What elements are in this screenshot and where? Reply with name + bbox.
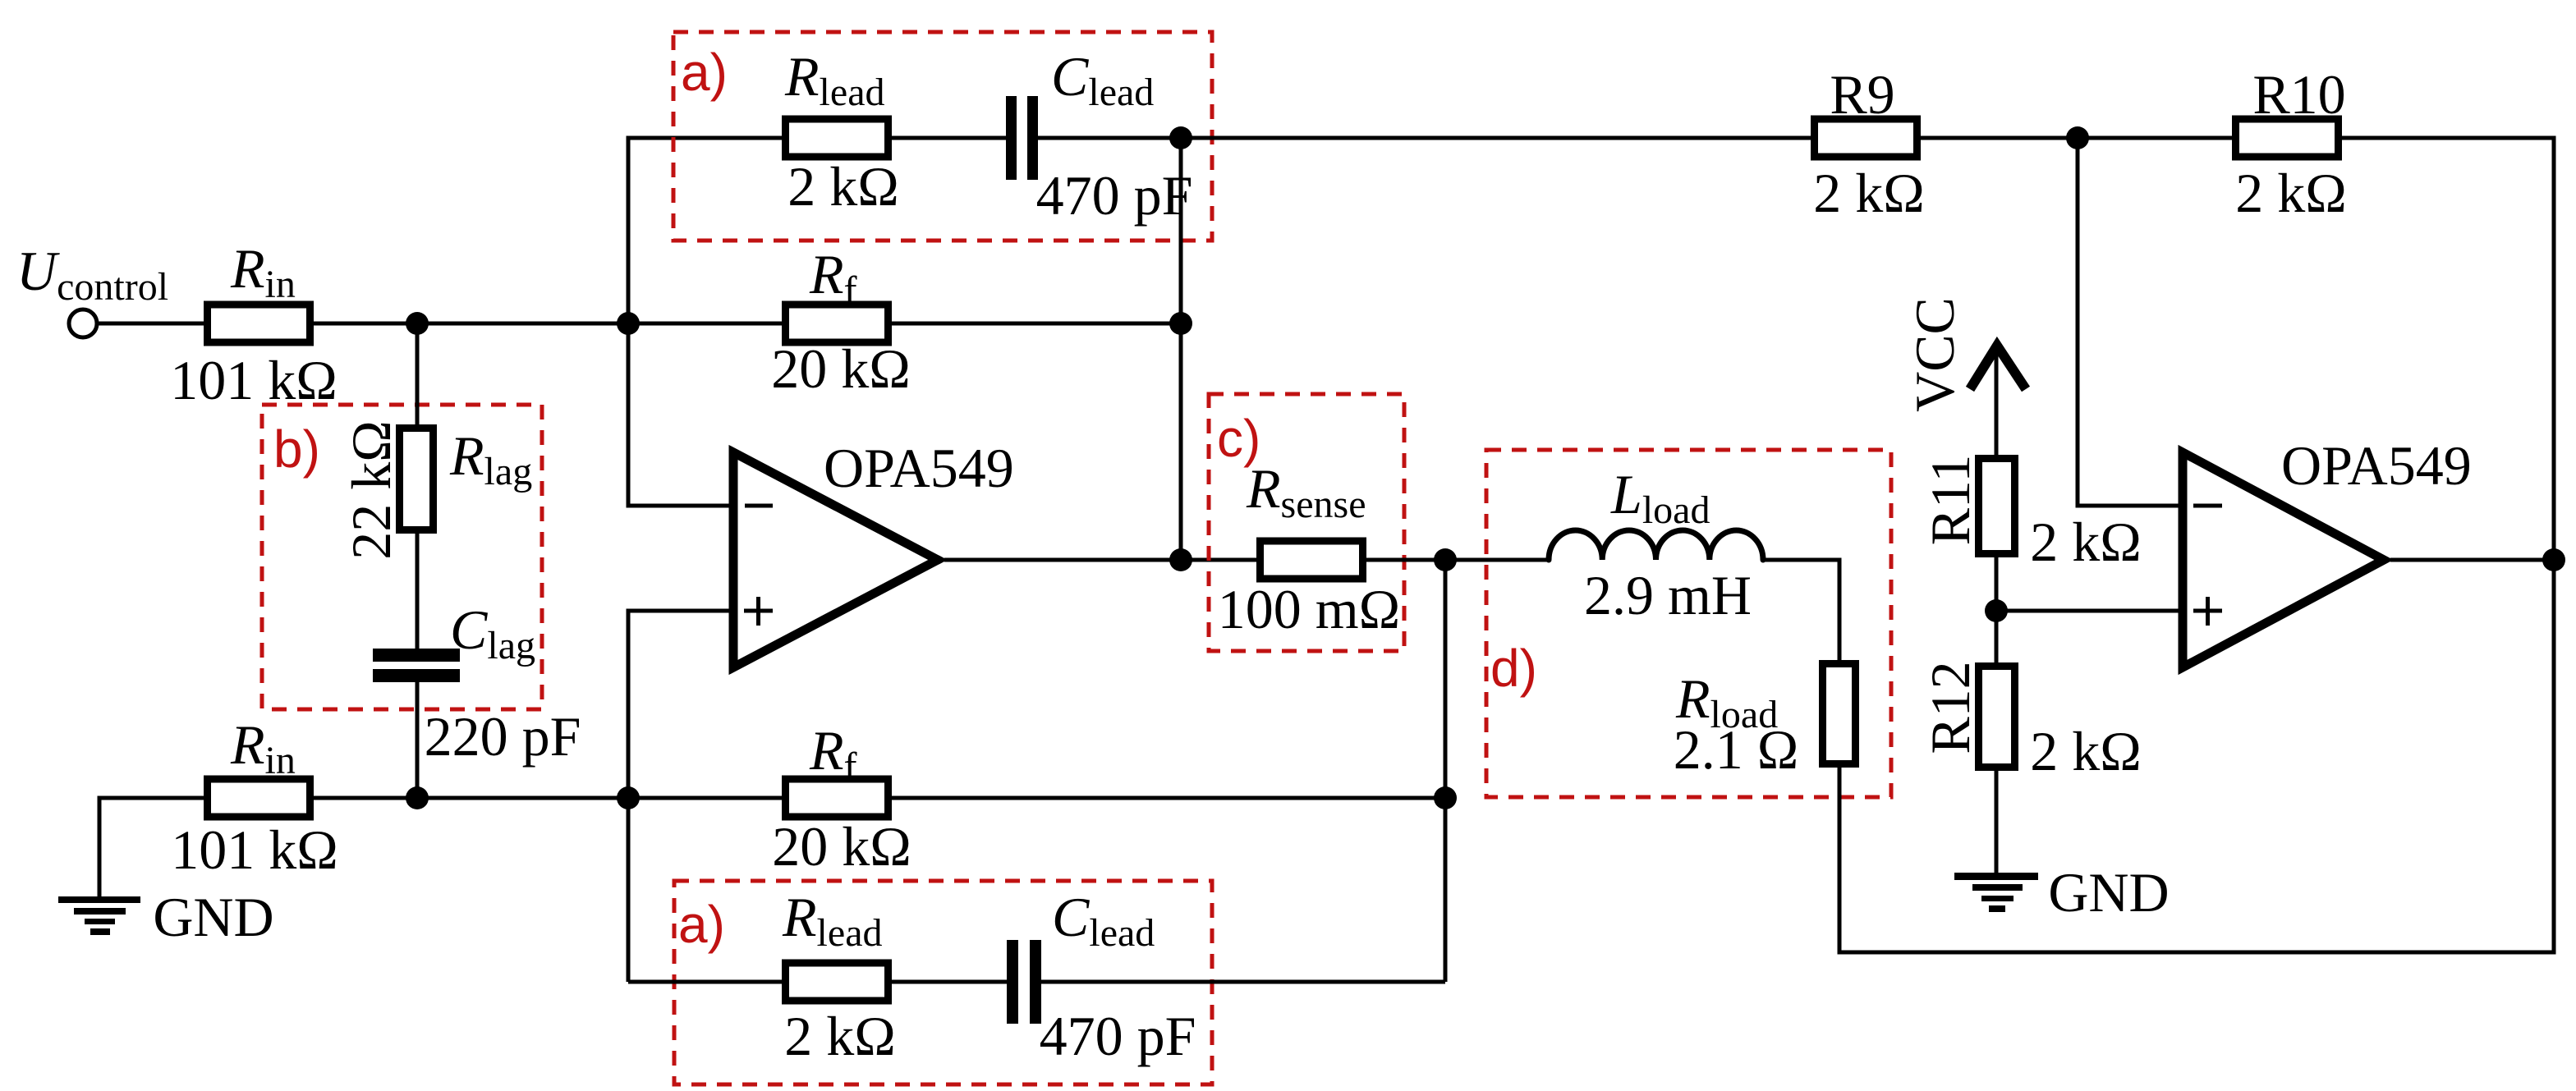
resistor R_lag (400, 429, 434, 530)
wire U1 output (944, 558, 1263, 562)
svg-text:GND: GND (153, 886, 273, 948)
wire R_lead to C_lead bottom (884, 980, 1007, 984)
wire C_lag to lower row (416, 682, 420, 798)
node F (output bus) (1169, 548, 1192, 571)
svg-text:R12: R12 (1919, 661, 1981, 754)
svg-text:R10: R10 (2252, 63, 2345, 126)
minus sign U2 (2193, 504, 2222, 508)
box b) dashed (262, 405, 542, 709)
svg-text:2.1 Ω: 2.1 Ω (1674, 718, 1799, 781)
wire minus input U1 (628, 323, 733, 506)
wire R_in to R_f bottom (310, 796, 786, 800)
wire R10 to right corner (2335, 138, 2554, 560)
resistor R9 (1815, 119, 1917, 157)
svg-text:101 kΩ: 101 kΩ (170, 349, 337, 411)
plus sign U2 (2193, 609, 2222, 613)
node H (lower row joint) (1434, 786, 1457, 809)
resistor R_f (top) (786, 305, 889, 342)
resistor R12 (1979, 667, 2015, 768)
box c) dashed (1209, 394, 1404, 651)
node J (plus branch joint) (617, 786, 640, 809)
wire R_f bottom right (884, 796, 1445, 800)
resistor R_lead (top) (786, 119, 889, 157)
box d) dashed (1486, 450, 1891, 797)
wire C_lead bottom to riser (1041, 980, 1445, 984)
wire divider to plus U2 (1996, 609, 2183, 613)
node I (C_lag joint) (406, 786, 429, 809)
wire terminal to R_in (97, 322, 207, 326)
svg-text:20 kΩ: 20 kΩ (771, 337, 911, 400)
svg-text:22 kΩ: 22 kΩ (340, 420, 402, 560)
svg-text:2 kΩ: 2 kΩ (2030, 511, 2142, 573)
op-amp U2 OPA549 (2183, 452, 2384, 667)
svg-text:220 pF: 220 pF (425, 705, 581, 768)
svg-text:R11: R11 (1919, 455, 1981, 546)
svg-text:470 pF: 470 pF (1040, 1005, 1196, 1067)
capacitor C_lag (373, 649, 460, 662)
svg-text:2 kΩ: 2 kΩ (2030, 720, 2142, 782)
svg-text:2.9 mH: 2.9 mH (1584, 564, 1752, 626)
node B (feedback tap) (617, 312, 640, 335)
wire R_load to bottom rail (1839, 560, 2554, 952)
wire R_f top right (884, 322, 1181, 326)
svg-text:2 kΩ: 2 kΩ (787, 155, 899, 218)
svg-text:101 kΩ: 101 kΩ (171, 818, 338, 881)
svg-text:a): a) (681, 43, 728, 102)
svg-text:20 kΩ: 20 kΩ (772, 815, 911, 878)
svg-text:R9: R9 (1830, 63, 1894, 126)
wire R_in to R_f row (310, 322, 786, 326)
terminal U_control (69, 309, 97, 337)
svg-text:OPA549: OPA549 (824, 437, 1014, 499)
resistor R_f (bottom) (786, 779, 889, 817)
wire vertical bus x1438 (1179, 138, 1183, 560)
node L (U2 output) (2542, 548, 2565, 571)
wire GND corner to R_in bottom (99, 798, 207, 898)
wire R_lag to C_lag (416, 530, 420, 649)
resistor R_lead (bottom) (786, 963, 889, 1001)
wire R11 to divider node (1995, 551, 1999, 669)
node C (top bus) (1169, 126, 1192, 149)
wire R_lead to C_lead (884, 136, 1006, 140)
wire lead row left (628, 980, 786, 984)
wire R9 node to minus U2 (2078, 138, 2183, 506)
capacitor C_lead (top) (1006, 96, 1017, 180)
capacitor C_lead (bottom) (1007, 940, 1018, 1024)
wire plus branch to lead row (627, 798, 631, 982)
plus sign U1 (744, 609, 773, 613)
box a) bottom dashed (674, 881, 1212, 1084)
wire node A to R_lag (416, 323, 420, 428)
box a) top dashed (673, 32, 1212, 241)
svg-text:b): b) (273, 419, 320, 479)
svg-text:GND: GND (2048, 861, 2169, 924)
svg-text:VCC: VCC (1903, 297, 1966, 412)
resistor R_sense (1260, 541, 1363, 579)
wire R_sense to L_load (1362, 558, 1549, 562)
node A (R_lag tap) (406, 312, 429, 335)
svg-text:100 mΩ: 100 mΩ (1218, 578, 1400, 640)
node D (R_f top right) (1169, 312, 1192, 335)
wire C_lead to R9 (1038, 136, 1818, 140)
node G (sense output) (1434, 548, 1457, 571)
svg-text:a): a) (678, 895, 725, 954)
svg-text:2 kΩ: 2 kΩ (784, 1005, 896, 1067)
wire U2 output (2390, 558, 2554, 562)
minus sign U1 (745, 504, 773, 508)
inductor L_load (1549, 530, 1763, 560)
ground GND right (1954, 873, 2038, 880)
wire R12 to ground (1995, 764, 1999, 873)
wire plus input U1 (628, 611, 733, 798)
svg-text:2 kΩ: 2 kΩ (2235, 162, 2347, 224)
resistor R_load (1823, 664, 1856, 764)
wire sense node down (1444, 560, 1448, 982)
wire VCC to R11 (1995, 348, 1999, 461)
wire up to lead branch (628, 138, 786, 323)
svg-text:OPA549: OPA549 (2281, 434, 2472, 497)
resistor R_in (bottom) (208, 779, 310, 817)
node E (R9/R10 junction) (2066, 126, 2089, 149)
svg-text:470 pF: 470 pF (1036, 164, 1193, 227)
wire R9 to R10 (1913, 136, 2239, 140)
node K (divider) (1985, 599, 2008, 622)
resistor R10 (2236, 119, 2339, 157)
power VCC arrow (1970, 346, 2026, 389)
svg-text:d): d) (1490, 639, 1537, 698)
resistor R11 (1979, 459, 2015, 554)
ground GND left (58, 896, 140, 903)
wire L_load to R_load (1763, 560, 1839, 663)
op-amp U1 OPA549 (733, 452, 938, 667)
svg-text:2 kΩ: 2 kΩ (1813, 162, 1925, 224)
resistor R_in (top) (208, 305, 310, 342)
